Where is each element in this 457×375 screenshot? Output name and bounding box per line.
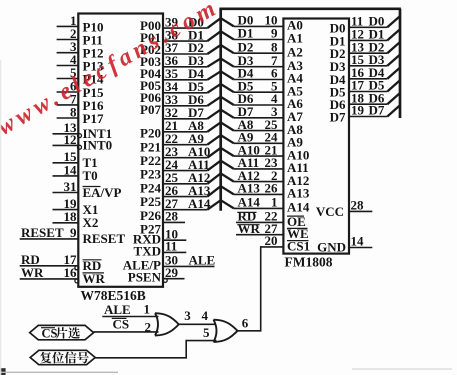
right bus entry diagonal D3 (387, 55, 400, 66)
bus entry chevron net A14 (207, 200, 234, 210)
U1 pin 23 net A10 wire to data bus (163, 144, 210, 159)
U2 pin 11 net D0 wire to right bus (349, 14, 387, 29)
U1 pin 11 TXD stub (163, 239, 186, 254)
svg-text:5: 5 (203, 325, 210, 340)
U2 pin label CS1 with overline (287, 238, 310, 253)
U1 pin 34 net D5 wire to data bus (163, 79, 207, 94)
U1 pin 28 P27 stub (163, 209, 185, 224)
U1 pin 36 net D3 wire to data bus (163, 53, 207, 68)
right bus entry diagonal D0 (387, 16, 400, 27)
svg-text:14: 14 (351, 234, 365, 249)
svg-text:1: 1 (144, 302, 151, 317)
svg-text:P17: P17 (83, 111, 104, 126)
right bus entry diagonal D2 (387, 42, 400, 53)
svg-text:16: 16 (64, 265, 78, 280)
wire net A8 to U2 pin 25 (234, 117, 284, 132)
svg-text:FM1808: FM1808 (285, 255, 333, 270)
U1 pin 2 P11 (left) with wire (57, 26, 103, 48)
wire net RD to U2 pin 22 (OE) (236, 209, 283, 224)
bus entry chevron net D4 (207, 71, 234, 80)
U1 pin 10 RXD stub (163, 226, 186, 241)
svg-text:28: 28 (165, 209, 179, 224)
svg-text:D7: D7 (369, 103, 385, 118)
bus entry chevron net D1 (207, 31, 234, 41)
wire CS1 to U2 pin 20 (261, 233, 284, 248)
wire net A10 to U2 pin 21 (234, 142, 284, 157)
U1 pin 12 INT0 (left) with wire (53, 132, 113, 153)
U2 pin 15 net D3 wire to right bus (349, 52, 387, 67)
U1 pin 15 T1 (left) with wire (53, 149, 98, 170)
svg-text:INT0: INT0 (83, 138, 113, 153)
bus trunk vertical (left) (219, 9, 222, 211)
U1 pin 6 P15 (left) with wire (57, 78, 104, 100)
wire from reset flag (95, 357, 187, 359)
gate G1 output 3 wire to gate G2 input 4 (178, 308, 216, 324)
wire reset signal to gate G2 input 5 (186, 325, 216, 341)
wire net A13 to U2 pin 26 (234, 181, 284, 196)
U1 pin 13 INT1 (left) with wire (53, 120, 113, 141)
wire node CS1 riser to U2 pin 20 (260, 246, 262, 332)
U1 pin 9 RESET input wire from left edge (20, 225, 126, 246)
wire net D4 to U2 pin 6 (234, 66, 284, 81)
bus entry chevron net D0 (207, 18, 234, 28)
bus entry chevron net A12 (207, 173, 234, 183)
U1 pin 29 PSEN stub with inversion bubble (163, 265, 185, 283)
svg-text:RESET: RESET (21, 225, 64, 240)
U1 pin 38 net D1 wire to data bus (163, 27, 207, 42)
bus entry chevron net D3 (207, 59, 234, 67)
U1 pin 31 EA/VP (left) with wire (53, 179, 122, 200)
bus entry chevron net A13 (207, 186, 234, 196)
svg-text:X2: X2 (83, 215, 99, 230)
svg-text:2: 2 (145, 320, 152, 335)
svg-text:6: 6 (242, 316, 249, 331)
wire net D2 to U2 pin 8 (234, 39, 284, 54)
svg-text:1: 1 (271, 195, 278, 210)
svg-text:GND: GND (317, 239, 346, 254)
svg-text:18: 18 (64, 209, 78, 224)
bus entry chevron net D7 (207, 110, 234, 119)
wire net D3 to U2 pin 7 (234, 53, 284, 68)
U2 right-side data pin labels D0-D7 (330, 20, 346, 124)
U1 pin 27 net A14 wire to data bus (163, 196, 211, 211)
svg-text:A13: A13 (238, 181, 261, 196)
svg-text:8: 8 (70, 104, 77, 119)
port flag CS chip-select (CS片选) (30, 325, 94, 340)
U1 pin 19 X1 (left) with wire (53, 196, 99, 217)
svg-text:4: 4 (202, 308, 209, 323)
svg-text:14: 14 (64, 162, 78, 177)
OR gate G2 (214, 320, 238, 342)
svg-text:A14: A14 (238, 195, 261, 210)
gate G2 output 6 wire (237, 316, 261, 331)
U2 pin label OE with overline (287, 214, 306, 229)
U1 pin 18 X2 (left) with wire (53, 209, 99, 230)
bus entry chevron net D5 (207, 84, 234, 93)
svg-text:A13: A13 (287, 186, 310, 201)
U2 part label FM1808 (285, 255, 333, 270)
svg-text:A14: A14 (287, 200, 310, 215)
svg-text:11: 11 (165, 239, 177, 254)
svg-text:29: 29 (165, 265, 179, 280)
svg-text:ALE: ALE (189, 253, 216, 268)
U2 pin 16 net D4 wire to right bus (349, 65, 387, 80)
wire net A12 to U2 pin 2 (234, 168, 284, 183)
U1 pin 37 net D2 wire to data bus (163, 40, 207, 55)
wire net D1 to U2 pin 9 (234, 26, 284, 41)
bus entry chevron net A8 (207, 122, 234, 131)
svg-text:9: 9 (70, 225, 77, 240)
U1 right-side pin name labels (123, 18, 162, 285)
U1 pin 4 P13 (left) with wire (57, 52, 104, 74)
bus trunk vertical (right) (399, 9, 402, 118)
IC U1 W78E516B body (78, 14, 163, 287)
wire reset riser (185, 340, 187, 358)
wire net A9 to U2 pin 24 (234, 130, 284, 145)
U1 pin 39 net D0 wire to data bus (163, 14, 207, 29)
svg-text:RESET: RESET (83, 231, 126, 246)
wire CS to gate G1 input 2 (94, 317, 159, 335)
port flag reset signal (复位信号) (30, 350, 95, 364)
U1 pin 21 net A8 wire to data bus (163, 118, 207, 133)
right bus entry diagonal D5 (387, 80, 400, 91)
svg-text:P23: P23 (140, 167, 161, 182)
svg-text:19: 19 (351, 103, 365, 118)
svg-text:T0: T0 (83, 168, 98, 183)
svg-text:12: 12 (64, 132, 77, 147)
svg-text:D7: D7 (330, 110, 346, 125)
U1 pin 22 net A9 wire to data bus (163, 131, 207, 146)
svg-text:3: 3 (184, 308, 191, 323)
U2 pin 28 VCC (316, 198, 372, 219)
wire ALE to gate G1 input 1 (102, 302, 158, 317)
svg-text:P07: P07 (140, 102, 161, 117)
U2 pin 12 net D1 wire to right bus (349, 27, 387, 42)
svg-text:26: 26 (265, 181, 279, 196)
right bus entry diagonal D7 (387, 105, 400, 116)
right bus entry diagonal D6 (387, 93, 400, 104)
wire net WR to U2 pin 27 (WE) (236, 221, 283, 236)
svg-text:P25: P25 (140, 194, 161, 209)
wire net D6 to U2 pin 4 (234, 91, 284, 106)
wire net D5 to U2 pin 5 (234, 78, 284, 93)
U1 part label W78E516B (81, 288, 146, 303)
U1 pin 14 T0 (left) with wire (53, 162, 98, 183)
wire net A11 to U2 pin 23 (234, 155, 284, 170)
bus entry chevron net A11 (207, 161, 234, 171)
U1 pin 24 net A11 wire to data bus (163, 157, 210, 172)
svg-text:28: 28 (351, 198, 365, 213)
wire net D7 to U2 pin 3 (234, 104, 284, 119)
bus entry chevron net A10 (207, 148, 234, 158)
IC U2 FM1808 body (283, 19, 349, 254)
bus trunk horizontal top (219, 7, 401, 10)
U1 pin 32 net D7 wire to data bus (163, 105, 207, 120)
svg-text:TXD: TXD (134, 244, 161, 259)
U1 pin 8 P17 (left) with wire (57, 104, 104, 126)
U1 pin 35 net D4 wire to data bus (163, 66, 207, 81)
svg-text:WR: WR (21, 265, 44, 280)
U2 pin 19 net D7 wire to right bus (349, 103, 387, 118)
U2 pin label WE with overline (287, 226, 309, 241)
wire net D0 to U2 pin 10 (234, 13, 284, 28)
U2 pin 17 net D5 wire to right bus (349, 78, 387, 93)
watermark www.elecfans.com (0, 0, 224, 141)
svg-text:20: 20 (265, 233, 278, 248)
U1 pin 33 net D6 wire to data bus (163, 92, 207, 107)
U1 pin 26 net A13 wire to data bus (163, 183, 211, 198)
svg-text:W78E516B: W78E516B (81, 288, 146, 303)
U1 pin 1 P10 (left) with wire (57, 13, 104, 35)
U1 pin 7 P16 (left) with wire (57, 91, 104, 113)
svg-text:VCC: VCC (316, 204, 344, 219)
U1 pin 3 P12 (left) with wire (57, 39, 104, 61)
U2 left-side address pin labels A0-A14 (287, 18, 310, 215)
right bus entry diagonal D4 (387, 68, 400, 79)
svg-text:ALE: ALE (104, 302, 131, 317)
right bus entry diagonal D1 (387, 29, 400, 40)
OR gate G1 (155, 313, 179, 335)
U2 pin 14 GND (317, 234, 372, 255)
svg-text:P21: P21 (140, 139, 161, 154)
U1 pin 25 net A12 wire to data bus (163, 170, 210, 185)
U2 pin 18 net D6 wire to right bus (349, 90, 387, 105)
svg-text:31: 31 (64, 179, 77, 194)
U1 pin 17 RD input wire from left edge (20, 252, 102, 273)
svg-text:WR: WR (238, 221, 261, 236)
U2 pin 13 net D2 wire to right bus (349, 39, 387, 54)
U1 pin 5 P14 (left) with wire (57, 65, 104, 87)
U1 pin 30 ALE wire (163, 253, 215, 268)
bus entry chevron net D6 (207, 97, 234, 106)
svg-text:CS: CS (42, 326, 58, 340)
wire net A14 to U2 pin 1 (234, 195, 284, 210)
U1 pin 16 WR input wire from left edge (20, 265, 106, 286)
svg-text:PSEN: PSEN (128, 270, 162, 285)
bus entry chevron net A9 (207, 135, 234, 145)
bus entry chevron net D2 (207, 45, 234, 54)
